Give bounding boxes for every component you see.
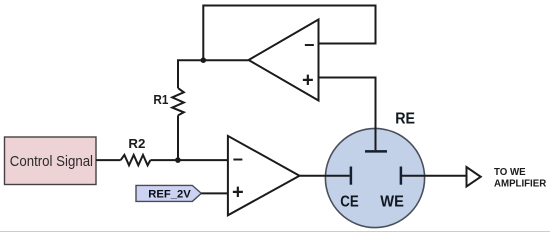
svg-text:−: −: [233, 150, 244, 170]
control signal box: [5, 137, 97, 185]
svg-text:REF_2V: REF_2V: [148, 188, 191, 200]
svg-text:RE: RE: [395, 110, 415, 127]
node B: output of U1: [201, 57, 207, 63]
electrode CE bar: [350, 167, 353, 185]
buffer amplifier symbol: [467, 167, 481, 187]
cell circle (electrochemical sensor): [325, 128, 424, 227]
svg-text:R1: R1: [153, 92, 168, 107]
svg-text:CE: CE: [340, 193, 359, 210]
op-amp U1 (left-pointing): [249, 20, 319, 101]
resistor R1 (vertical): [172, 88, 184, 115]
electrode RE bar: [365, 150, 387, 153]
net tag REF_2V: [136, 185, 201, 201]
svg-text:TO WE: TO WE: [494, 167, 526, 178]
wire: box to R2: [96, 159, 121, 161]
electrode WE bar: [400, 167, 403, 185]
node: junction of R1 and bottom rail: [175, 157, 181, 163]
wire: feedback loop top rail: [203, 6, 375, 61]
resistor R2: [121, 155, 151, 165]
op-amp U2 (right-pointing): [228, 136, 300, 215]
wire: REF_2V tag to U2 non-inverting input: [201, 192, 228, 194]
wire: U2 output to CE: [300, 175, 350, 177]
wire: U1 non-inverting input to RE: [319, 78, 376, 151]
wire: WE to buffer: [402, 175, 467, 177]
svg-text:AMPLIFIER: AMPLIFIER: [494, 179, 546, 190]
svg-text:WE: WE: [380, 193, 404, 210]
svg-text:−: −: [304, 35, 315, 55]
svg-text:+: +: [232, 182, 244, 204]
svg-text:+: +: [302, 69, 314, 91]
svg-text:Control Signal: Control Signal: [10, 153, 93, 170]
wire: R1 bottom lead: [177, 115, 179, 160]
wire: R1 top lead up and over to node B: [178, 60, 249, 88]
bottom edge line: [0, 231, 550, 233]
svg-text:R2: R2: [128, 136, 145, 151]
wire: R2 to op-amp U2 inverting input: [150, 159, 228, 161]
